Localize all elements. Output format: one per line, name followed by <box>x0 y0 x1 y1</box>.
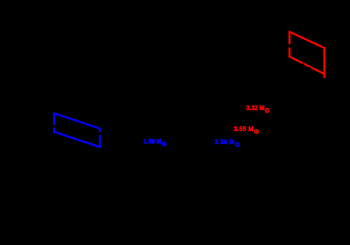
gap on red left edge (black overdraw) <box>288 44 291 47</box>
red plane right-edge extension <box>323 74 325 78</box>
gap 2 on red bottom edge (black overdraw) <box>309 67 311 70</box>
gap on blue left edge (black overdraw) <box>53 125 56 128</box>
gap on red bottom edge (black overdraw) <box>302 64 304 67</box>
gap on blue right edge (black overdraw) <box>98 132 101 135</box>
orbital plane (red parallelogram) <box>290 32 325 74</box>
orbital plane (blue parallelogram) <box>54 113 100 147</box>
